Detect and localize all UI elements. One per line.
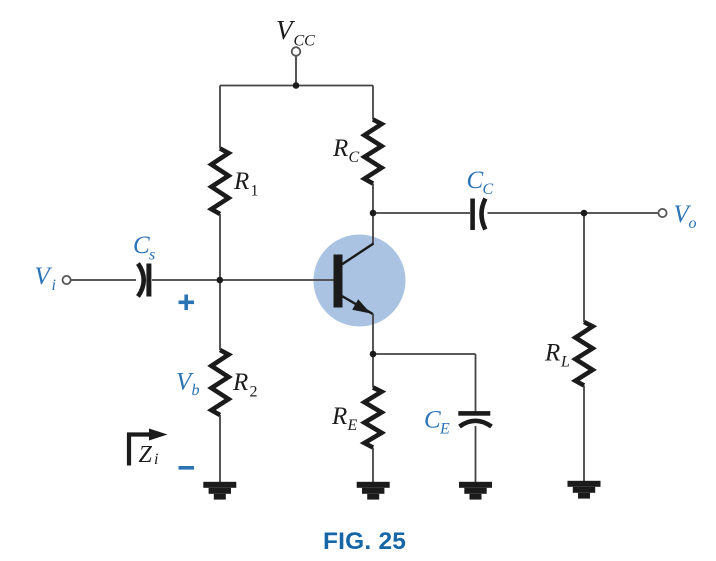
ground below R2 <box>203 482 236 488</box>
wire: top rail drop to RC <box>372 86 374 120</box>
node: collector junction <box>370 210 377 217</box>
capacitor Cc straight plate <box>470 199 475 231</box>
terminal: Vi <box>63 276 71 284</box>
wire: left drop to R1 <box>219 86 221 149</box>
wire: emitter node right to CE <box>373 353 476 355</box>
svg-text:C: C <box>483 181 494 198</box>
ground below CE <box>459 482 492 488</box>
svg-text:E: E <box>439 421 450 438</box>
svg-text:C: C <box>133 232 150 259</box>
capacitor CE curved plate <box>460 421 492 427</box>
ground below RE <box>357 482 390 488</box>
svg-text:o: o <box>689 215 697 232</box>
wire: RL bottom to ground <box>583 386 585 482</box>
node: emitter junction <box>370 351 377 358</box>
svg-text:R: R <box>331 403 347 430</box>
wire: top rail <box>220 85 373 87</box>
wire: emitter down to emitter node <box>372 314 374 355</box>
capacitor Cs curved plate <box>138 264 144 297</box>
svg-text:C: C <box>424 407 441 434</box>
terminal: Vo <box>658 209 666 217</box>
svg-text:C: C <box>467 167 484 194</box>
resistor R2 <box>211 350 228 415</box>
wire: CE top drop <box>475 354 477 412</box>
wire: R2 bottom to ground <box>219 415 221 482</box>
transistor Q1 collector lead <box>341 244 374 266</box>
resistor RL <box>575 322 592 386</box>
wire: output node down to RL <box>583 213 585 322</box>
terminal: Vcc <box>292 47 301 56</box>
svg-text:s: s <box>149 247 155 264</box>
capacitor CE straight plate <box>458 411 490 416</box>
transistor Q1 highlight circle <box>314 235 406 327</box>
svg-text:R: R <box>544 340 560 367</box>
svg-text:1: 1 <box>251 183 259 200</box>
transistor Q1 emitter arrowhead <box>352 299 371 313</box>
svg-text:i: i <box>52 277 56 294</box>
node: base junction <box>217 277 224 284</box>
node: output junction <box>581 210 588 217</box>
wire: RC bottom to collector node <box>372 184 374 214</box>
Zi measurement arrow <box>129 435 152 466</box>
svg-text:R: R <box>332 135 348 162</box>
ground below RL <box>568 481 601 487</box>
transistor Q1 emitter lead <box>341 296 373 314</box>
wire: input from Vi to Cs <box>71 279 136 281</box>
svg-text:b: b <box>192 382 200 399</box>
wire: emitter node to RE <box>372 354 374 388</box>
svg-text:C: C <box>349 149 360 166</box>
label plus sign <box>179 301 195 305</box>
resistor RE <box>364 388 381 448</box>
wire: CE bottom to ground <box>475 426 477 482</box>
wire: base node down to R2 <box>219 280 221 350</box>
svg-text:FIG. 25: FIG. 25 <box>323 528 406 555</box>
wire: Cc to Vo terminal <box>488 212 659 214</box>
label minus sign <box>179 466 195 470</box>
node: Vcc junction <box>293 82 300 89</box>
svg-text:L: L <box>560 354 570 371</box>
svg-text:i: i <box>154 451 158 468</box>
resistor R1 <box>211 149 228 215</box>
resistor RC <box>364 120 381 184</box>
wire: RE bottom to ground <box>372 448 374 483</box>
wire: Vcc stub <box>295 56 297 86</box>
wire: collector node down to transistor <box>372 213 374 244</box>
svg-text:R: R <box>233 168 249 195</box>
svg-text:R: R <box>232 369 248 396</box>
transistor Q1 base bar <box>334 255 343 308</box>
svg-text:E: E <box>347 417 358 434</box>
wire: base rail Cs to transistor base <box>152 279 334 281</box>
wire: collector node to Cc <box>373 212 470 214</box>
capacitor Cc curved plate <box>482 199 486 230</box>
svg-text:2: 2 <box>250 384 258 401</box>
svg-text:Z: Z <box>139 442 153 468</box>
svg-text:CC: CC <box>294 33 316 50</box>
capacitor Cs straight plate <box>146 264 151 297</box>
wire: R1 bottom to base node <box>219 214 221 280</box>
